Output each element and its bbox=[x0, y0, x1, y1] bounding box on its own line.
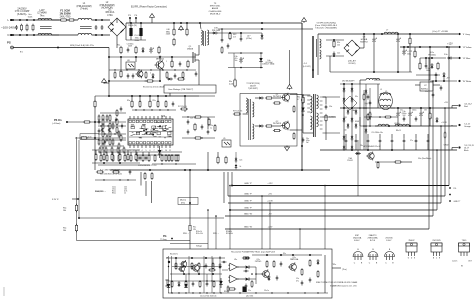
junction hkg x305 bbox=[304, 292, 305, 293]
resistor R161 u4dense bbox=[105, 147, 107, 154]
capacitor C115 gnd row bbox=[403, 138, 406, 143]
capacitor CX3 bbox=[101, 25, 104, 30]
junction rail C6 bbox=[140, 22, 142, 24]
junction hkx5 bbox=[219, 257, 220, 258]
wire sw link1 bbox=[290, 94, 302, 96]
wire right-IC v bbox=[207, 117, 209, 129]
junction rv1 bbox=[359, 107, 361, 109]
wire bridge minus down bbox=[116, 36, 118, 48]
resistor R165 u4dense bbox=[102, 119, 104, 126]
svg-text:A5009: A5009 bbox=[212, 7, 219, 10]
junction gnd r3 bbox=[391, 149, 393, 151]
junction rail gnd2 bbox=[180, 22, 182, 24]
wire bridge top to rail bbox=[116, 18, 118, 23]
junction hk2 bbox=[191, 257, 193, 259]
resistor R90 +5V bleed bbox=[429, 112, 431, 120]
svg-text:2N60B: 2N60B bbox=[187, 48, 194, 50]
wire under-IC bus bbox=[98, 151, 182, 153]
svg-text:GND 'P': GND 'P' bbox=[244, 207, 252, 209]
transistor Q2 driver bbox=[281, 121, 290, 131]
svg-text:~2.4: ~2.4 bbox=[303, 63, 307, 65]
transistor Q22 hk bbox=[288, 262, 296, 271]
junction rail x262 bbox=[261, 22, 263, 24]
wire R130 up bbox=[95, 150, 97, 154]
diode D61 bbox=[258, 125, 264, 128]
junction sv3 bbox=[365, 125, 367, 127]
regulator U7 KA7800 bbox=[420, 82, 433, 91]
junction hk4 bbox=[183, 273, 185, 275]
svg-text:C7x 2200u 16v: C7x 2200u 16v bbox=[371, 132, 383, 134]
junction L x27 bbox=[26, 19, 28, 21]
svg-text:'W' White: 'W' White bbox=[463, 80, 472, 83]
junction r4 bbox=[351, 107, 353, 109]
junction hkg x256 bbox=[255, 292, 256, 293]
capacitor C91 +5V filter bbox=[408, 111, 412, 117]
wire T1 bot bbox=[303, 132, 313, 134]
junction mb2 bbox=[184, 169, 186, 171]
capacitor C99 bus bbox=[432, 92, 435, 97]
wire sense v3 bbox=[151, 181, 153, 203]
svg-text:C3x: C3x bbox=[329, 106, 332, 108]
svg-text:D1x: D1x bbox=[444, 54, 448, 56]
diode D70 rectifier bbox=[343, 87, 346, 93]
wire P4 drop bbox=[135, 18, 137, 23]
pin T1 left 1 bbox=[307, 95, 310, 97]
core L2 line1 bbox=[80, 25, 92, 27]
wire above-IC h bbox=[132, 109, 176, 111]
resistor R221 hk bbox=[251, 280, 253, 287]
svg-text:R10x 1k: R10x 1k bbox=[196, 231, 202, 233]
svg-text:10k: 10k bbox=[63, 210, 66, 212]
svg-text:PS On: PS On bbox=[54, 119, 62, 122]
transformer T4 primary winding bbox=[320, 39, 322, 48]
resistor R98 out bbox=[384, 116, 392, 118]
junction PE v1 bbox=[108, 56, 110, 58]
diode D233 black right bbox=[246, 278, 250, 281]
resistor R95 rect bbox=[363, 93, 365, 100]
junction ri2 bbox=[201, 137, 202, 138]
wire sb core feed bbox=[302, 28, 313, 30]
junction hk riser 6 bbox=[324, 185, 326, 187]
svg-text:L8 (24x): L8 (24x) bbox=[394, 123, 400, 125]
svg-text:R5x 22k C5x 47u D5x 1N4148: R5x 22k C5x 47u D5x 1N4148 bbox=[143, 86, 165, 88]
terminal +5V bbox=[458, 104, 460, 106]
wire C72 up bbox=[397, 34, 399, 37]
wire hk riser 0 bbox=[207, 210, 209, 249]
wire hk ladder 2 bbox=[188, 256, 190, 293]
wire row3 bus2 bbox=[152, 163, 196, 165]
terminal PS On bbox=[66, 121, 68, 123]
svg-text:GND 'P': GND 'P' bbox=[244, 193, 252, 195]
resistor R114 row bbox=[124, 154, 126, 162]
junction ai43 bbox=[159, 109, 160, 110]
resistor R82 bbox=[437, 62, 439, 70]
wire mid bottom bus bbox=[110, 169, 330, 171]
diode D202 black bbox=[219, 281, 222, 285]
resistor R214 bbox=[309, 259, 311, 267]
terminal aux pin 1 bbox=[449, 187, 451, 189]
wire R114 up bbox=[124, 152, 126, 155]
wire hk topstub bbox=[170, 243, 208, 245]
junction hk3 bbox=[205, 257, 207, 259]
resistor R81 bbox=[419, 62, 421, 70]
svg-text:House-Keir PCB ANTH8U 78x21 (e: House-Keir PCB ANTH8U 78x21 (exp) IQDP-0… bbox=[231, 250, 276, 253]
diode D76a bbox=[365, 89, 368, 94]
svg-text:C3x 1u: C3x 1u bbox=[264, 290, 269, 292]
wire +12V riser bbox=[429, 47, 431, 80]
junction b+1 bbox=[301, 99, 303, 101]
core L1 line1 bbox=[40, 25, 52, 27]
junction hkl2 bbox=[188, 273, 189, 274]
wire AC line N bbox=[11, 34, 59, 36]
svg-text:C31: C31 bbox=[344, 117, 347, 119]
capacitor C5 bulk bbox=[130, 23, 132, 28]
resistor R115 row bbox=[130, 154, 132, 162]
diode D755 rect2 bbox=[351, 145, 354, 150]
transformer T3 secondary bbox=[207, 30, 209, 45]
zener ZD1 hk bbox=[166, 280, 168, 286]
wire +12V feed bbox=[374, 79, 430, 81]
junction hkx4 bbox=[206, 280, 207, 281]
wire sec v5 bbox=[365, 84, 367, 150]
terminal L input bbox=[10, 19, 12, 21]
wire B+ rail bbox=[126, 22, 302, 24]
diode D76b bbox=[365, 128, 368, 133]
diode D71 rectifier bbox=[343, 97, 346, 103]
inductor L5 toroid mid bbox=[380, 99, 391, 101]
junction pson1 bbox=[94, 121, 96, 123]
resistor R205 bbox=[185, 280, 187, 288]
junction bus +5V top bbox=[444, 107, 446, 109]
junction 12b bbox=[419, 46, 421, 48]
wire sense bus2 bbox=[92, 162, 140, 164]
resistor R211 bbox=[266, 260, 268, 268]
wire lower rail +5V bbox=[228, 195, 445, 197]
capacitor C22 bbox=[201, 124, 204, 129]
junction cl1 bbox=[120, 56, 122, 58]
diode D754 rect2 bbox=[343, 145, 346, 150]
wire rail riser A bbox=[231, 172, 233, 186]
diode pack U6 dual schottky bbox=[343, 96, 357, 110]
resistor R117 row bbox=[142, 154, 144, 162]
wire sb return2 bbox=[218, 28, 240, 30]
wire hk riser 6 bbox=[324, 186, 326, 250]
capacitor C211 bbox=[280, 261, 283, 266]
box mains rtn label bbox=[178, 198, 198, 205]
inductor L5 outline bbox=[379, 92, 393, 109]
resistor R65 base bbox=[234, 79, 236, 88]
junction sbm3 bbox=[150, 69, 151, 70]
resistor R222 hk bbox=[227, 286, 229, 293]
svg-text:GND 'W': GND 'W' bbox=[244, 213, 253, 215]
resistor R181 row3 bbox=[161, 154, 163, 162]
wire bulk bottom bbox=[126, 39, 146, 41]
svg-text:-12V: -12V bbox=[268, 226, 273, 228]
wire T3 top bbox=[200, 23, 201, 29]
junction hkg x221 bbox=[220, 292, 221, 293]
junction r2 bbox=[351, 83, 353, 85]
resistor R96 rect bbox=[367, 113, 369, 120]
pin U4 top 11 bbox=[149, 116, 151, 119]
diode D51 bbox=[152, 73, 155, 79]
pin T1 right 5 bbox=[320, 112, 323, 114]
wire left bus A bbox=[76, 137, 78, 241]
svg-text:R2A,R2S →: R2A,R2S → bbox=[95, 190, 106, 193]
junction R71 bbox=[409, 33, 411, 35]
capacitor C212 bbox=[276, 275, 279, 280]
resistor R104 U4-left bbox=[109, 122, 111, 129]
pin T1 left 4 bbox=[307, 107, 310, 109]
pin U4 top 15 bbox=[133, 116, 135, 119]
wire D25 stem bbox=[235, 152, 237, 158]
terminal -5V bbox=[458, 80, 460, 82]
resistor R61 bbox=[173, 38, 175, 46]
wire u4left bus bbox=[100, 112, 126, 114]
wire T1 sec out1 bbox=[323, 96, 341, 98]
svg-text:N: N bbox=[8, 33, 10, 37]
ground driver top bbox=[287, 85, 292, 90]
resistor R220 hk bbox=[228, 288, 236, 290]
resistor R44 bbox=[80, 137, 88, 139]
wire C92 up bbox=[420, 108, 422, 111]
resistor R91 bbox=[377, 161, 379, 169]
svg-text:3.3V 'S': 3.3V 'S' bbox=[52, 199, 59, 201]
junction mb4 bbox=[301, 169, 303, 171]
wire lower rail +12V bbox=[232, 185, 449, 187]
junction sbm5 bbox=[174, 69, 175, 70]
capacitor C6 bulk bbox=[140, 23, 142, 28]
wire C6 down bbox=[140, 36, 142, 40]
box over-wattage protect bbox=[164, 85, 216, 93]
wire sense h2 bbox=[77, 240, 191, 242]
resistor R168 u4dense bbox=[118, 131, 120, 138]
transistor pinout TO220 2SC2625 bbox=[431, 240, 442, 260]
svg-text:2WD-4 (24): 2WD-4 (24) bbox=[128, 25, 137, 27]
junction hkg x193 bbox=[192, 292, 193, 293]
pin U4 top 16 bbox=[129, 116, 131, 119]
pin T1 right 7 bbox=[320, 120, 323, 122]
resistor R107 U4-left bbox=[116, 126, 118, 133]
capacitor C116 gnd row bbox=[415, 138, 418, 143]
capacitor C111 gnd row bbox=[355, 138, 358, 143]
resistor RT2 bbox=[68, 19, 76, 21]
wire R118 up bbox=[148, 152, 150, 155]
capacitor C20 bbox=[187, 119, 190, 124]
terminal aux pin 3 bbox=[449, 200, 451, 202]
svg-text:D9x: D9x bbox=[355, 96, 358, 98]
diode D200 bbox=[219, 263, 222, 269]
capacitor C220 hk bbox=[245, 283, 248, 288]
resistor R202 bbox=[198, 262, 200, 270]
capacitor C92 +5V filter bbox=[419, 111, 423, 117]
inductor L1 winding B bbox=[38, 33, 52, 35]
inductor L2 winding B bbox=[78, 33, 92, 35]
wire T1 sec out2 bbox=[323, 116, 337, 118]
wire R111 up bbox=[106, 152, 108, 155]
op-amp U4 internal blocks bbox=[129, 120, 173, 144]
svg-text:Comm: Comm bbox=[452, 260, 458, 262]
wire hk out bbox=[332, 267, 341, 269]
resistor R1011 U4-left bbox=[116, 109, 118, 116]
wire hk ladder 4 bbox=[211, 256, 213, 293]
capacitor C140 sense bbox=[129, 169, 132, 174]
junction N x13 bbox=[12, 34, 14, 36]
svg-text:100u: 100u bbox=[426, 70, 430, 72]
wire drv3 bbox=[255, 125, 258, 127]
resistor R223 hk bbox=[208, 269, 215, 271]
junction hk riser 1 bbox=[215, 215, 217, 217]
svg-text:GND 'P': GND 'P' bbox=[454, 201, 461, 203]
svg-text:+5V: +5V bbox=[444, 102, 448, 104]
svg-text:PR1002): PR1002) bbox=[428, 54, 436, 56]
junction sv2 bbox=[369, 125, 371, 127]
wire bus -5V vertical bbox=[432, 81, 434, 216]
svg-text:GND 'P': GND 'P' bbox=[244, 183, 252, 185]
wire aux out up bbox=[360, 47, 364, 49]
resistor R1613 u4dense bbox=[98, 139, 100, 146]
junction cmp1 bbox=[255, 273, 257, 275]
svg-text:Orange: Orange bbox=[464, 126, 472, 128]
capacitor C110 gnd row bbox=[345, 138, 348, 143]
resistor R46 bbox=[225, 156, 227, 164]
svg-text:50v: 50v bbox=[235, 60, 238, 62]
wire D31 top bbox=[261, 33, 263, 35]
transformer T2 core2 bbox=[250, 99, 252, 140]
svg-text:(1+B): (1+B) bbox=[229, 83, 234, 85]
pin T1 right 3 bbox=[320, 104, 323, 106]
terminal +3.3V bbox=[458, 124, 460, 126]
junction sn3 bbox=[103, 179, 104, 180]
transformer T1 secondary B bbox=[317, 113, 319, 127]
junction hkx1 bbox=[175, 266, 176, 267]
junction pson2 bbox=[94, 137, 96, 139]
svg-text:GND 'P': GND 'P' bbox=[244, 200, 252, 202]
wire sb gnd bbox=[330, 71, 412, 73]
resistor R207 bbox=[213, 280, 215, 288]
junction hkg x288 bbox=[287, 292, 288, 293]
wire R133 up bbox=[119, 150, 121, 154]
svg-text:100u: 100u bbox=[407, 53, 411, 55]
svg-text:D2x: D2x bbox=[283, 253, 286, 255]
resistor R172 above-IC bbox=[165, 100, 167, 108]
wire R134 up bbox=[127, 150, 129, 154]
capacitor C210 bbox=[243, 270, 248, 273]
junction hkg x214 bbox=[213, 292, 214, 293]
junction hkg x172 bbox=[171, 292, 172, 293]
junction t1a bbox=[302, 94, 304, 96]
resistor R192 right-IC bbox=[194, 137, 202, 139]
wire L5 out bbox=[391, 107, 395, 109]
resistor R64d bbox=[273, 129, 281, 131]
resistor R100 U4-left bbox=[102, 114, 104, 121]
wire -12V rail bbox=[420, 57, 446, 59]
wire standby bus A bbox=[109, 56, 196, 58]
svg-text:(41 1N4x): (41 1N4x) bbox=[265, 62, 273, 64]
wire C111 dn bbox=[355, 144, 357, 150]
resistor R164 u4dense bbox=[123, 147, 125, 154]
svg-text:(74mH): (74mH) bbox=[80, 9, 88, 11]
wire lower rail +3.3V bbox=[228, 202, 441, 204]
wire pson riser bbox=[94, 96, 96, 170]
svg-text:1u: 1u bbox=[210, 127, 212, 129]
transformer T1 secondary A bbox=[317, 95, 319, 109]
junction C80 bbox=[403, 46, 405, 48]
resistor RT1 thermistor bbox=[32, 24, 34, 32]
resistor R122 row2 bbox=[177, 154, 179, 162]
terminal aux pin 2 bbox=[449, 194, 451, 196]
wire C41 drop bbox=[240, 33, 242, 37]
svg-text:74m: 74m bbox=[40, 15, 45, 17]
junction mb1 bbox=[149, 169, 151, 171]
junction m5b bbox=[443, 80, 445, 82]
wire q8 bus bbox=[375, 161, 395, 163]
wire cmp out1 bbox=[237, 266, 245, 268]
junction hkg x179 bbox=[178, 292, 179, 293]
wire hk row2 bus bbox=[168, 280, 222, 282]
junction bus -12V top bbox=[428, 57, 430, 59]
wire cmp bus v bbox=[255, 267, 257, 284]
optocoupler U5 internals bbox=[224, 142, 227, 145]
resistor R53 bbox=[120, 70, 122, 78]
resistor R56 bbox=[187, 60, 189, 68]
wire rail riser C bbox=[223, 172, 225, 203]
capacitor C71 bbox=[372, 37, 376, 43]
junction hk7 bbox=[266, 254, 268, 256]
pin U4 top 7 bbox=[165, 116, 167, 119]
junction PE v2 bbox=[108, 80, 110, 82]
wire hk link5 bbox=[222, 269, 228, 271]
terminal PE bbox=[11, 46, 14, 49]
capacitor C52 bbox=[127, 73, 130, 78]
wire hk riser 2 bbox=[229, 186, 231, 250]
junction r90 bbox=[429, 107, 431, 109]
resistor R1614 u4dense bbox=[98, 115, 100, 122]
pin U4 bottom 11 bbox=[169, 145, 171, 148]
junction bb4 bbox=[184, 95, 186, 97]
svg-text:E-B-C: E-B-C bbox=[354, 240, 360, 242]
svg-text:B1 RFL (Power Factor Connectio: B1 RFL (Power Factor Connection) bbox=[131, 5, 167, 8]
junction r3b bbox=[175, 163, 176, 164]
wire R42 up bbox=[131, 96, 133, 101]
capacitor C72 bbox=[396, 37, 400, 43]
svg-text:2N60P: 2N60P bbox=[408, 240, 415, 242]
resistor R57 bbox=[114, 71, 116, 78]
wire cluster b2 bbox=[145, 80, 148, 82]
terminal N input bbox=[10, 34, 12, 36]
wire hk ladder 3 bbox=[203, 256, 205, 293]
svg-text:2SB1116A: 2SB1116A bbox=[290, 258, 299, 261]
junction tc1 bbox=[221, 28, 223, 30]
wire C114 dn bbox=[391, 144, 393, 150]
resistor R102 U4-left bbox=[102, 130, 104, 137]
wire base bus bbox=[95, 95, 215, 97]
diode D40 black bbox=[158, 150, 161, 154]
wire C71 dn bbox=[373, 43, 375, 72]
svg-text:SYAMKON DeuJenn CO. LTD: SYAMKON DeuJenn CO. LTD bbox=[330, 284, 357, 287]
svg-text:M05P02: M05P02 bbox=[360, 41, 368, 43]
junction b+2 bbox=[301, 145, 303, 147]
diode D30 bbox=[212, 32, 218, 35]
diode D90 gnd bbox=[355, 152, 361, 155]
svg-text:+12V: +12V bbox=[447, 44, 453, 46]
op-amp U10B comparator bbox=[228, 275, 239, 283]
svg-text:10k: 10k bbox=[63, 230, 66, 232]
junction cl2 bbox=[135, 56, 137, 58]
diode D211 bbox=[317, 259, 320, 265]
junction sbm6 bbox=[186, 69, 187, 70]
wire R62 top bbox=[186, 23, 188, 29]
junction snb1 bbox=[240, 52, 242, 54]
